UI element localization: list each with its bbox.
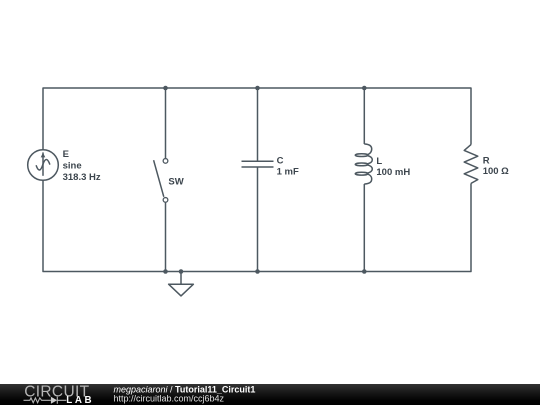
wire capacitor lower [257, 167, 259, 271]
node switch top [163, 86, 168, 91]
svg-text:sine: sine [63, 161, 82, 172]
wire capacitor upper [257, 88, 259, 161]
node inductor top [362, 86, 367, 91]
wire switch lower [165, 202, 167, 271]
wire inductor lower [363, 184, 365, 272]
node switch bottom [163, 269, 168, 274]
svg-text:R: R [483, 155, 490, 166]
svg-text:L: L [376, 156, 382, 167]
svg-text:318.3 Hz: 318.3 Hz [63, 172, 101, 183]
wire switch upper [165, 88, 167, 158]
svg-text:100 Ω: 100 Ω [483, 166, 509, 177]
node inductor bottom [362, 269, 367, 274]
voltage source E [28, 150, 59, 181]
wire bottom rail with left and right corner stubs [43, 180, 471, 271]
svg-text:1 mF: 1 mF [277, 167, 299, 178]
svg-text:C: C [277, 156, 284, 167]
svg-text:SW: SW [168, 176, 183, 187]
capacitor C [242, 161, 274, 167]
svg-text:http://circuitlab.com/ccj6b4z: http://circuitlab.com/ccj6b4z [114, 394, 225, 404]
node capacitor bottom [255, 269, 260, 274]
logo resistor zigzag [24, 398, 51, 403]
node capacitor top [255, 86, 260, 91]
resistor R [464, 145, 478, 184]
switch SW [154, 159, 168, 203]
ground [169, 272, 194, 296]
inductor L [355, 144, 372, 184]
wire inductor upper [363, 88, 365, 144]
svg-text:LAB: LAB [66, 395, 94, 405]
svg-text:E: E [63, 149, 69, 160]
logo diode [51, 397, 66, 404]
node ground [179, 269, 184, 274]
svg-text:100 mH: 100 mH [376, 167, 410, 178]
wire top rail with left and right corner stubs [43, 88, 471, 150]
